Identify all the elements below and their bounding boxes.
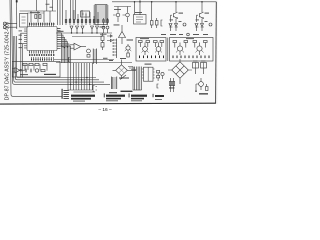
connector pins column left — [113, 39, 117, 59]
IC U1 left pins — [24, 29, 27, 48]
left pin labels — [19, 31, 23, 49]
capacitor C21 — [25, 69, 27, 73]
bottom marks row — [173, 56, 210, 59]
resistor R24 — [43, 63, 47, 65]
sub-circuit box bottom-left — [12, 61, 60, 77]
resistor R32 — [156, 21, 159, 26]
resistor R23 — [35, 63, 39, 65]
label — [100, 33, 107, 36]
resistor array column 2 — [89, 12, 99, 25]
resistor R53 — [193, 41, 197, 43]
transistor Q10 — [177, 46, 182, 51]
resistor R61 — [206, 87, 209, 91]
bracket — [161, 20, 163, 26]
transistor Q1 cell top-right — [169, 2, 186, 31]
border frame right edge — [215, 2, 218, 104]
transistor Q2 cell top-right — [195, 2, 212, 31]
note text block C — [129, 93, 147, 101]
sub-circuit box mid — [136, 38, 166, 62]
IC U1 bottom pins — [30, 51, 54, 54]
box U3 — [134, 15, 147, 25]
label C62 — [145, 64, 152, 65]
resistor R25 — [41, 70, 45, 72]
resistor R41 — [139, 41, 143, 43]
resistor R54 — [204, 41, 208, 43]
diode row triangles — [70, 26, 109, 29]
junction dots — [71, 32, 98, 33]
resistor R51 — [173, 41, 177, 43]
wire left pin drops — [21, 33, 24, 77]
resistor R22 — [29, 63, 33, 65]
wire verticals top x70-76 — [71, 0, 76, 20]
junction dots bundle — [61, 45, 68, 48]
bridge rectifier D2 — [168, 59, 192, 84]
pin label row — [29, 54, 54, 56]
wire — [51, 0, 53, 11]
wire bundle right of ladder — [133, 67, 142, 91]
component column right of U4 — [157, 71, 160, 73]
resistor R42 — [146, 41, 150, 43]
IC U1 QFP body — [27, 27, 57, 51]
transistor Q11 — [197, 46, 202, 51]
transistor Q8 — [143, 47, 148, 52]
resistor array column 1 — [65, 10, 87, 25]
label row y34 — [161, 33, 208, 36]
wire verticals top x57-64 — [58, 0, 63, 25]
transistor Q6 — [126, 13, 130, 17]
resistor array column 3 — [103, 18, 109, 25]
wire — [46, 0, 48, 11]
resistor R43 — [154, 41, 158, 43]
top mid rail — [114, 6, 131, 8]
label — [127, 40, 134, 41]
label — [140, 37, 149, 40]
wire — [13, 36, 104, 82]
junction dots top rail — [134, 1, 203, 3]
bracket — [93, 86, 97, 92]
resistor R12 — [101, 43, 104, 48]
resistor R2 — [39, 15, 41, 19]
resistor R11 — [101, 36, 104, 41]
wire horizontals y59-62 — [54, 59, 114, 61]
connector J1 coil — [3, 22, 6, 25]
wire inside box — [25, 64, 47, 70]
bottom marks row — [139, 56, 164, 59]
wire bundle center-bottom verticals — [68, 63, 92, 90]
misc labels top-left — [58, 25, 127, 59]
resistor R31 — [151, 21, 154, 26]
sub-circuit box right — [170, 38, 214, 62]
wire drops to IC top pins — [31, 11, 50, 23]
label above U3 — [135, 11, 142, 14]
resistor R44 — [160, 41, 164, 43]
resistor R21 — [23, 63, 27, 65]
IC U2 small box — [81, 11, 90, 17]
label under bridge — [119, 78, 129, 79]
label — [20, 73, 28, 76]
bottom-mid text row — [109, 91, 133, 94]
wire drops from top rail — [135, 2, 152, 18]
capacitor C61 — [195, 91, 197, 92]
transistor Q5 — [116, 13, 120, 17]
resistor R1 — [35, 15, 37, 19]
note text block B — [104, 93, 125, 101]
label — [114, 8, 121, 11]
op-amp A1 — [74, 43, 81, 50]
border frame bottom rule — [0, 102, 216, 105]
connector ladder mid — [93, 49, 96, 65]
resistor R52 — [184, 41, 188, 43]
wire — [139, 0, 141, 15]
wire comb below IC — [32, 57, 54, 61]
transistor Q9 — [156, 47, 161, 52]
dark block left of text A — [62, 89, 69, 99]
wire — [36, 0, 38, 11]
op-amp A3 — [119, 32, 126, 38]
label — [186, 37, 194, 40]
transistor leads — [125, 50, 204, 53]
wire rail y33 — [56, 32, 112, 34]
resistor R62 — [169, 82, 171, 86]
transistor Q12 cluster — [199, 82, 204, 87]
junction dots on bus — [70, 77, 90, 85]
connector CN1 vertical — [95, 5, 107, 25]
off-page arrow — [107, 35, 112, 42]
bracket — [68, 58, 70, 63]
IC U1 top pins — [30, 23, 54, 27]
label — [30, 11, 40, 14]
note text block D — [153, 94, 164, 100]
wire — [15, 36, 99, 80]
labels top — [46, 4, 54, 8]
wire rail above IC — [20, 10, 56, 12]
wire — [72, 36, 103, 38]
relay box K2 — [201, 63, 207, 69]
capacitor C22 — [30, 69, 32, 73]
note text block A — [71, 95, 95, 102]
border frame top edge (right half) — [112, 1, 216, 3]
connector ladder bottom-mid — [112, 77, 117, 90]
wire — [12, 0, 110, 84]
box top-left sub-circuit — [20, 13, 28, 27]
op-amp A2 — [15, 68, 20, 74]
transistor Q7 — [126, 46, 130, 50]
bridge rectifier D1 — [113, 60, 137, 80]
resistor R63 — [172, 82, 174, 86]
column components left-bottom-right quad — [171, 78, 174, 92]
IC U4 — [144, 67, 154, 81]
wire left vertical bus — [10, 0, 62, 96]
label monitor — [44, 74, 56, 75]
transistor Q3 — [87, 49, 91, 53]
wire between boxes — [167, 38, 169, 62]
text block right-bottom — [199, 93, 208, 94]
labels mid-right — [103, 58, 113, 61]
wire bundle bottom hooks — [68, 90, 95, 92]
svg-text:DP-87 DAC ASS'Y (725-0042-00): DP-87 DAC ASS'Y (725-0042-00) — [4, 22, 10, 100]
wire IC right bundle — [61, 33, 71, 63]
wire top-left vertical with terminal — [16, 0, 18, 29]
wire — [16, 36, 96, 78]
IC U1 right pins — [57, 29, 61, 49]
transistor Q4 — [35, 69, 38, 72]
svg-text:– 16 –: – 16 – — [98, 107, 112, 113]
relay box K1 — [193, 63, 199, 69]
